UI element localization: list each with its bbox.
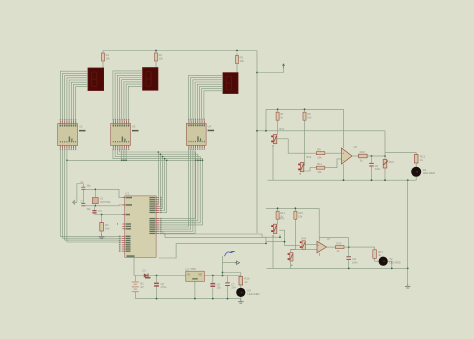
wire block1 top rail: [266, 108, 344, 110]
MCU left pin XTAL1: [122, 196, 124, 198]
wire XTAL1 net: [83, 189, 124, 197]
svg-text:LED-RED: LED-RED: [247, 292, 259, 296]
wire bus U3 staircase to MCU P2 upper: [113, 148, 203, 225]
wire MCU to block2 upper: [161, 231, 280, 237]
wire R2 to display2: [155, 64, 157, 68]
pot/sensor RV3: [271, 218, 285, 238]
MCU left pin RST: [122, 214, 124, 216]
junction dots ground rail: [156, 298, 229, 300]
svg-text:104n: 104n: [352, 260, 358, 264]
wire LED2 right: [388, 261, 392, 268]
wire R15 to node: [291, 222, 296, 249]
svg-text:104: 104: [231, 286, 236, 290]
wire pot3 out: [279, 230, 284, 241]
resistor R3: [236, 53, 245, 67]
svg-text:10k: 10k: [298, 215, 303, 219]
shift register U2 74HC595: [58, 119, 86, 150]
junction pot3 sense: [279, 236, 281, 238]
svg-text:7805: 7805: [190, 267, 196, 271]
junction dots block2 bottom: [348, 268, 409, 270]
wire MCU to block2 lower: [161, 233, 299, 245]
wire block2 rail corner: [318, 208, 320, 237]
resistor R10: [359, 150, 372, 163]
wire supply input rail: [134, 275, 186, 277]
svg-text:10k: 10k: [106, 56, 111, 60]
wire pot1 out: [277, 139, 316, 153]
svg-text:C3: C3: [98, 209, 102, 213]
wire bus MCU P0 risers: [156, 151, 167, 212]
svg-text:U3: U3: [132, 125, 136, 129]
power flag: [235, 261, 240, 264]
junction C end: [265, 243, 267, 245]
resistor R17: [373, 247, 384, 261]
resistor R2: [155, 51, 164, 65]
wire LED1 to rail: [415, 177, 417, 180]
wire block2 feedback: [319, 237, 349, 239]
crystal X1: [92, 189, 111, 207]
resistor R7: [276, 110, 284, 124]
LED D5 power: [236, 285, 259, 297]
wire R7 to pot: [277, 123, 279, 134]
wire block2 top rail: [266, 207, 319, 209]
pot/sensor RV2: [298, 156, 312, 176]
MCU left pins PSEN ALE EA: [117, 223, 125, 229]
wire LED to rail: [240, 297, 242, 299]
7-segment display DS1: [88, 68, 104, 91]
svg-text:RV5: RV5: [389, 160, 395, 164]
junction out2: [348, 246, 350, 248]
wire MCU GND drop: [133, 257, 135, 275]
wire out node1: [372, 155, 386, 157]
wire block1 rail left drop: [265, 109, 267, 131]
resistor R1: [102, 51, 111, 65]
wire opamp2 power bottom: [319, 254, 321, 257]
svg-text:B1: B1: [141, 282, 145, 286]
junction dots block1 bottom: [343, 179, 409, 181]
wire regulator output rail: [204, 275, 240, 277]
wire +5V top rail: [103, 50, 257, 52]
svg-text:10k: 10k: [317, 156, 322, 160]
wire gnd column to ground: [407, 268, 409, 283]
svg-text:104n: 104n: [375, 167, 381, 171]
resistor R12: [414, 152, 425, 167]
ground: [405, 283, 411, 288]
svg-text:+: +: [343, 151, 345, 155]
junction rail/+5V branch: [256, 72, 258, 74]
battery BAT1: [132, 276, 144, 299]
junction R15 rail: [295, 207, 297, 209]
wire feedback drop: [348, 238, 350, 247]
shift register U4 74HC595: [186, 119, 214, 150]
capacitor C1: [81, 181, 92, 190]
capacitor C2: [81, 189, 92, 211]
wire caps top to ground column: [77, 184, 83, 203]
7-segment display DS3: [223, 73, 238, 94]
junction R8 rail: [304, 108, 306, 110]
svg-text:U6: U6: [354, 145, 358, 149]
power +5V arrow: [282, 63, 285, 68]
pot/sensor RV1: [271, 128, 285, 148]
wire opamp1 out: [352, 155, 359, 157]
wire pot5 to minus: [290, 249, 292, 252]
wire block1 rail to opamp: [343, 109, 345, 143]
wire block1 bottom rail: [268, 179, 417, 181]
wire block1 mid to out drop: [384, 131, 386, 156]
wire pot3 bottom to rail: [272, 235, 274, 269]
wire R1 to display1: [102, 64, 104, 68]
junction reg out: [212, 275, 214, 277]
svg-text:9V: 9V: [141, 285, 144, 289]
junction R7 rail: [277, 108, 279, 110]
diode D1: [143, 269, 151, 279]
resistor R4 reset: [100, 215, 110, 235]
wire bus display3 to U4: [189, 75, 224, 120]
wire latch line: [67, 159, 203, 161]
junction supply: [156, 275, 158, 277]
capacitor C11: [346, 247, 358, 268]
wire +5V branch: [223, 262, 235, 264]
svg-text:10k: 10k: [159, 56, 164, 60]
resistor R11: [316, 159, 341, 174]
wire pot2 out: [304, 168, 316, 171]
wire RST net: [95, 214, 125, 216]
regulator U5 7805: [185, 267, 204, 282]
svg-text:10k: 10k: [240, 59, 245, 63]
resistor R8: [303, 110, 312, 124]
wire pot5 bottom to rail: [290, 261, 292, 268]
wire R8 to pot2: [303, 123, 306, 165]
annotation blue text: [225, 251, 235, 256]
MCU pin name text columns: [126, 197, 156, 257]
junction pot3 out: [284, 241, 286, 243]
wire plus input: [305, 244, 317, 246]
wire to +5V arrow: [257, 68, 284, 73]
svg-text:−: −: [343, 158, 345, 162]
junction RST: [101, 214, 103, 216]
wire pot3 stub: [279, 235, 281, 238]
svg-text:VO: VO: [198, 272, 202, 276]
ground left: [72, 200, 77, 205]
capacitor C9: [210, 276, 221, 299]
resistor R9: [316, 148, 341, 160]
wire out1 to R12: [385, 151, 416, 153]
LED T2: [375, 257, 401, 266]
junction mid/vert: [256, 130, 258, 132]
7-segment display DS2: [143, 68, 158, 91]
wire R14 to pot3: [277, 222, 279, 224]
svg-text:R13: R13: [337, 241, 342, 245]
wire block1 mid line: [257, 130, 385, 132]
wire rail drop right: [256, 51, 258, 234]
svg-text:10k: 10k: [105, 226, 110, 230]
svg-text:RV1: RV1: [279, 128, 284, 131]
pot RV5b red: [288, 253, 293, 267]
pot RV5: [383, 156, 394, 180]
svg-text:470u: 470u: [161, 285, 167, 289]
wire minus input: [291, 248, 318, 250]
wire R16 feed: [223, 272, 241, 274]
MCU left pin XTAL2: [122, 204, 124, 206]
svg-text:U4: U4: [208, 124, 212, 128]
svg-text:33p: 33p: [87, 208, 92, 211]
pot RV4: [300, 238, 307, 250]
svg-text:U1: U1: [125, 192, 129, 196]
svg-text:RV3: RV3: [279, 218, 284, 221]
resistor R13: [336, 241, 349, 253]
op-amp U7: [317, 237, 331, 255]
capacitor C5: [369, 156, 381, 180]
svg-text:T2: T2: [389, 257, 393, 261]
wire opamp1 vcc down: [343, 169, 345, 180]
ground: [238, 299, 244, 304]
op-amp U6: [342, 143, 358, 169]
LED D4: [411, 167, 435, 177]
svg-text:10k: 10k: [307, 116, 312, 120]
wire XTAL2 net: [83, 204, 124, 207]
svg-text:R9: R9: [317, 148, 321, 152]
capacitor C10: [225, 276, 236, 299]
svg-text:R11: R11: [317, 162, 322, 166]
MCU left pins P3 block: [119, 236, 125, 252]
wire block2 bottom rail: [267, 267, 408, 269]
wire bus display1 to U2: [60, 71, 88, 121]
resistor R15: [294, 209, 303, 223]
svg-text:U2: U2: [79, 125, 83, 129]
wire MCU bottom signal: [159, 243, 266, 258]
svg-text:VI: VI: [187, 272, 190, 276]
svg-text:D1: D1: [143, 269, 147, 273]
wire regulator gnd: [194, 281, 196, 298]
junction +5V node: [222, 275, 224, 277]
svg-text:10u: 10u: [217, 286, 222, 290]
junction R14 rail: [277, 207, 279, 209]
wire supply ground rail: [135, 298, 241, 300]
MCU right pins P0 and P2: [156, 197, 162, 234]
wire R3 to display3: [236, 67, 238, 73]
svg-text:LED-RED: LED-RED: [423, 171, 435, 175]
wire out node2: [349, 246, 375, 248]
wire bus U4 drops to MCU P2 lower: [156, 148, 195, 233]
junction R16 tap: [222, 272, 224, 274]
resistor R14: [276, 209, 285, 223]
wire bus display2 to U3: [113, 71, 143, 121]
wire opamp2 out: [327, 246, 336, 248]
microcontroller U1 AT89C51: [125, 192, 156, 258]
wire U3 latch drops: [122, 148, 126, 160]
wire +5V riser: [222, 256, 224, 276]
svg-text:33p: 33p: [87, 184, 92, 187]
wire bus U2 to MCU P3: [60, 148, 121, 242]
junction dots latch line: [66, 159, 127, 161]
svg-text:10k: 10k: [317, 170, 322, 174]
ground: [99, 234, 105, 239]
resistor R16: [239, 273, 250, 286]
junction R3 on rail: [236, 50, 238, 52]
junction R2 rail: [155, 50, 157, 52]
svg-text:RV4: RV4: [302, 238, 307, 241]
svg-text:R17: R17: [378, 250, 383, 254]
wire block1 rail to gnd column: [407, 180, 409, 267]
wire pot1 bottom to rail: [272, 145, 274, 180]
svg-text:R10: R10: [360, 150, 366, 154]
capacitor C3 reset: [92, 207, 102, 215]
svg-text:RV2: RV2: [306, 156, 311, 159]
shift register U3 74HC595: [111, 119, 139, 150]
junction out1: [371, 155, 373, 157]
wire opamp2 power top: [319, 238, 321, 239]
svg-text:CRYSTAL: CRYSTAL: [100, 201, 111, 204]
capacitor C8 input: [154, 276, 167, 299]
